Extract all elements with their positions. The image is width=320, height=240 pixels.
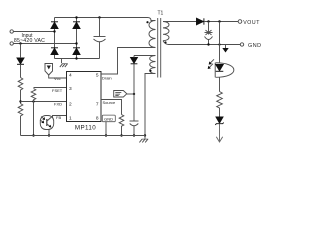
wire Vcc pin4: [49, 75, 67, 78]
wire bridge column 1: [54, 18, 56, 59]
label GND output: [248, 43, 261, 49]
wire FSET: [34, 87, 67, 89]
LED D7 in opto: [216, 64, 224, 71]
svg-text:MP110: MP110: [75, 124, 96, 131]
resistor R2: [18, 104, 23, 117]
node R4 rail: [120, 134, 122, 136]
phase dot aux: [149, 70, 151, 72]
svg-text:FSET: FSET: [52, 88, 63, 93]
label FXD: [54, 102, 62, 107]
wire vcc cap to rail: [133, 126, 135, 135]
node pin8 rail: [105, 134, 107, 136]
wire R1 to node: [20, 90, 22, 104]
wire FXD net: [21, 101, 67, 103]
wire source pin7: [101, 100, 122, 115]
label Input: [21, 33, 33, 39]
label FB: [56, 115, 61, 120]
wire aux return: [145, 74, 156, 136]
svg-text:4: 4: [69, 73, 72, 79]
node input to bridge1: [53, 30, 55, 32]
label 85~420 VAC: [14, 38, 45, 44]
phase dot primary: [146, 21, 148, 23]
wire resistor to zener: [219, 108, 221, 117]
resistor R3 FSET: [31, 89, 36, 102]
wire tag to vcc line: [127, 93, 134, 95]
wire gnd pin8: [105, 122, 107, 136]
terminal GND: [240, 43, 243, 46]
node startup tap: [19, 42, 21, 44]
input terminal upper: [10, 30, 13, 33]
wire R4 to rail: [121, 127, 123, 136]
label MP110: [75, 124, 96, 131]
node R3 rail: [32, 134, 34, 136]
svg-text:GND: GND: [104, 117, 113, 122]
diode D2 bridge lower-left: [51, 48, 58, 55]
svg-text:T1: T1: [158, 10, 164, 16]
diode D5 startup: [17, 58, 24, 64]
label VOUT: [243, 20, 260, 26]
wire aux diode stub: [133, 56, 135, 58]
optocoupler U2 LED side: [208, 59, 234, 77]
wire drain pin5: [101, 48, 156, 75]
svg-text:FXD: FXD: [54, 102, 62, 107]
transformer T1 label: [158, 10, 164, 16]
pin number 3: [69, 86, 72, 92]
svg-text:Source: Source: [103, 100, 116, 105]
phase dot secondary: [164, 41, 166, 43]
wire startup mid: [20, 64, 22, 77]
svg-text:7: 7: [96, 102, 99, 108]
transformer primary winding: [149, 21, 155, 48]
label Source: [103, 100, 116, 105]
transformer secondary winding: [163, 22, 169, 41]
resistor R5: [217, 92, 223, 109]
terminal VOUT: [238, 20, 242, 24]
capacitor C3 vcc: [130, 121, 139, 126]
wire upper input: [14, 31, 55, 33]
offpage tag VCC right: [114, 91, 127, 98]
pin number 4: [69, 73, 72, 79]
ground earth bridge: [60, 59, 68, 68]
node bridge top col2: [75, 16, 77, 18]
node chain crossing: [218, 43, 220, 45]
wire R2 to rail: [20, 116, 22, 136]
svg-text:GND: GND: [248, 43, 261, 49]
node divider: [19, 100, 21, 102]
node vcc cap rail: [133, 134, 135, 136]
wire to vout: [204, 21, 238, 23]
svg-text:8: 8: [96, 116, 99, 122]
svg-text:5: 5: [96, 73, 99, 79]
svg-text:85~420 VAC: 85~420 VAC: [14, 38, 45, 44]
wire zener chain upper: [219, 22, 221, 63]
diode D3 bridge upper-right: [73, 22, 80, 29]
wire R3 bottom to rail: [33, 102, 35, 136]
svg-text:1: 1: [69, 116, 72, 122]
pin number 1: [69, 116, 72, 122]
wire aux top: [134, 55, 156, 57]
diode D4 bridge lower-right: [73, 48, 80, 55]
svg-text:Drain: Drain: [102, 76, 112, 81]
node opto emitter rail: [48, 134, 50, 136]
label Vcc: [54, 76, 61, 81]
offpage tag VCC left: [45, 64, 53, 76]
wire top rail: [55, 18, 156, 21]
pin number 8: [96, 116, 99, 122]
wire lower input: [14, 43, 77, 45]
node bulk cap top: [98, 16, 100, 18]
node input to bridge2: [75, 42, 77, 44]
wire FB pin1: [53, 116, 67, 118]
diode D1 bridge upper-left: [51, 22, 58, 29]
wire LED to resistor: [219, 78, 221, 92]
capacitor bulk C1: [94, 18, 106, 59]
IC U1 MP110 box: [67, 72, 102, 122]
ground arrow secondary: [222, 45, 228, 53]
node output cap top: [207, 20, 209, 22]
wire startup upper: [20, 44, 22, 59]
wire vcc line: [133, 64, 135, 121]
label Drain: [102, 76, 112, 81]
node zener chain top: [218, 20, 220, 22]
pin number 7: [96, 102, 99, 108]
wire secondary top: [163, 21, 197, 23]
capacitor C2 output: [205, 22, 213, 45]
label GND: [102, 115, 115, 122]
node cap bottom: [207, 43, 209, 45]
zener diode Z1: [215, 117, 223, 125]
wire bridge column 2: [76, 18, 78, 59]
transformer core: [158, 18, 161, 78]
wire secondary return: [163, 41, 240, 45]
transformer aux winding: [150, 56, 156, 74]
resistor R1: [18, 78, 23, 91]
optocoupler U2 phototransistor: [40, 116, 54, 136]
node bridge bottom col2: [75, 57, 77, 59]
pin number 5: [96, 73, 99, 79]
label FSET: [52, 88, 63, 93]
pin number 2: [69, 102, 72, 108]
wire zener to ground arrow: [219, 124, 221, 141]
svg-text:2: 2: [69, 102, 72, 108]
svg-text:VOUT: VOUT: [243, 20, 260, 26]
wire bridge bottom rail: [55, 58, 100, 60]
diode D8 aux rectifier: [131, 58, 138, 64]
node aux return rail: [144, 134, 146, 136]
wire primary ground rail: [21, 135, 146, 137]
node FSET R bottom: [32, 100, 34, 102]
ground earth primary: [139, 136, 148, 143]
svg-text:Vcc: Vcc: [54, 76, 61, 81]
diode D6 output rectifier: [197, 18, 204, 24]
ground arrow bottom: [216, 137, 222, 142]
svg-text:3: 3: [69, 86, 72, 92]
input terminal lower: [10, 42, 13, 45]
node vcc tag junction: [133, 93, 135, 95]
resistor R4 sense: [119, 115, 124, 127]
